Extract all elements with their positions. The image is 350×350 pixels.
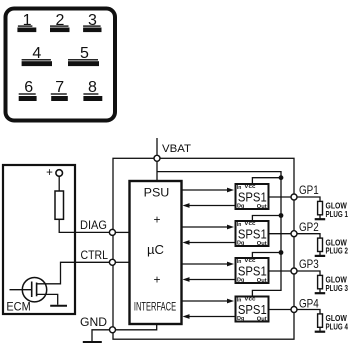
- pin 5: [68, 45, 99, 66]
- svg-text:GP4: GP4: [299, 297, 319, 311]
- pin 7: [51, 79, 68, 101]
- svg-text:GP2: GP2: [299, 220, 319, 234]
- SPS1 #4 box: [236, 297, 269, 322]
- svg-text:PSU: PSU: [144, 185, 170, 199]
- In wire 3: [182, 263, 229, 265]
- Vcc feed SPS1: [252, 178, 281, 183]
- module boundary box: [113, 158, 294, 339]
- SPS1 #2 box: [236, 221, 269, 246]
- Vcc feed SPS3: [252, 253, 281, 258]
- transistor Q1 circle: [22, 278, 46, 302]
- pin 8: [83, 79, 102, 101]
- glow plug 2 resistor: [318, 238, 323, 251]
- wire plug4 to ground: [319, 327, 321, 331]
- In wire 1: [182, 189, 229, 191]
- junction dot 1: [279, 175, 284, 180]
- junction dot 3: [279, 250, 284, 255]
- SPS1 #3 box: [236, 258, 269, 283]
- GLOW PLUG 2 label: [326, 237, 349, 255]
- wire CTRL to U1: [116, 261, 130, 263]
- svg-text:PLUG 4: PLUG 4: [326, 321, 349, 331]
- svg-text:PLUG 2: PLUG 2: [326, 246, 349, 256]
- svg-text:+: +: [46, 167, 53, 179]
- wire supply to resistor: [58, 176, 60, 191]
- svg-text:Dg: Dg: [237, 278, 245, 284]
- wire GP2 to plug: [297, 234, 320, 238]
- svg-text:SPS1: SPS1: [238, 302, 267, 317]
- terminal GP2: [291, 231, 297, 237]
- terminal GP4: [291, 307, 297, 313]
- connector J1 (relay socket outline): [6, 9, 116, 121]
- ground main: [83, 341, 102, 343]
- wire GND external: [92, 330, 109, 342]
- glow plug 3 resistor: [318, 275, 323, 288]
- ground plug4: [315, 331, 326, 333]
- Out wire 4: [270, 309, 292, 311]
- svg-text:VBAT: VBAT: [162, 143, 191, 155]
- wire GP1 to plug: [297, 197, 320, 201]
- wire plug2 to ground: [319, 252, 321, 256]
- Dg arrow 1: [183, 203, 190, 208]
- GLOW PLUG 1 label: [326, 201, 349, 219]
- source wire: [37, 294, 58, 304]
- svg-text:INTERFACE: INTERFACE: [134, 301, 177, 313]
- terminal DIAG: [109, 229, 115, 235]
- resistor R1 (pull-up): [55, 191, 64, 219]
- svg-text:Out: Out: [257, 204, 267, 210]
- drain wire to CTRL: [37, 262, 110, 284]
- ground plug1: [315, 218, 326, 220]
- gate wire: [10, 289, 32, 291]
- wire GP4 to plug: [297, 310, 320, 314]
- Out wire 1: [270, 196, 292, 198]
- svg-text:µC: µC: [147, 242, 164, 257]
- svg-text:Out: Out: [257, 317, 267, 323]
- svg-text:Dg: Dg: [237, 241, 245, 247]
- Vcc feed SPS2: [252, 216, 281, 221]
- svg-text:Out: Out: [257, 278, 267, 284]
- svg-text:ECM: ECM: [6, 302, 30, 314]
- SPS1 #1 labels: [237, 184, 267, 210]
- pin 4: [22, 45, 52, 66]
- In arrow 3: [227, 262, 234, 267]
- SPS1 #3 labels: [237, 258, 267, 284]
- pin 2: [50, 12, 70, 32]
- svg-text:CTRL: CTRL: [81, 248, 109, 262]
- In arrow 4: [227, 299, 234, 304]
- Dg arrow 3: [183, 277, 190, 282]
- junction dot 2: [279, 213, 284, 218]
- svg-text:GP1: GP1: [299, 183, 319, 197]
- pin 1: [17, 12, 36, 32]
- wire GND internal: [116, 324, 157, 330]
- wire GP3 to plug: [297, 271, 320, 275]
- wire DIAG to U1: [116, 231, 130, 233]
- Out wire 3: [270, 270, 292, 272]
- svg-text:PLUG 1: PLUG 1: [326, 209, 349, 219]
- Dg wire 2: [188, 242, 235, 244]
- Dg wire 4: [188, 316, 235, 318]
- glow plug 4 resistor: [318, 314, 323, 327]
- wire plug1 to ground: [319, 215, 321, 219]
- pin 6: [19, 79, 37, 101]
- svg-text:DIAG: DIAG: [80, 218, 107, 232]
- ground plug2: [315, 255, 326, 257]
- svg-text:Out: Out: [257, 241, 267, 247]
- wire VBAT to PSU: [156, 161, 158, 180]
- svg-text:PLUG 3: PLUG 3: [326, 283, 349, 293]
- In arrow 1: [227, 188, 234, 193]
- ground ECM: [50, 305, 67, 307]
- ECM box: [3, 165, 75, 314]
- Out wire 2: [270, 233, 292, 235]
- wire resistor to DIAG: [59, 219, 109, 232]
- GLOW PLUG 3 label: [326, 275, 349, 293]
- svg-text:GND: GND: [80, 315, 107, 329]
- Dg arrow 4: [183, 314, 190, 319]
- In wire 4: [182, 300, 229, 302]
- Dg arrow 2: [183, 240, 190, 245]
- VBAT stub wire: [156, 138, 158, 155]
- microcontroller unit U1 box: [130, 181, 182, 324]
- svg-text:SPS1: SPS1: [238, 264, 267, 279]
- terminal GND: [110, 327, 116, 333]
- pin 3: [83, 12, 101, 32]
- Dg wire 3: [188, 279, 235, 281]
- svg-text:GP3: GP3: [299, 257, 319, 271]
- channel plate: [36, 283, 38, 297]
- wire plug3 to ground: [319, 289, 321, 293]
- In arrow 2: [227, 225, 234, 230]
- gate plate: [31, 282, 33, 298]
- terminal VBAT: [154, 155, 160, 161]
- svg-text:+: +: [153, 272, 160, 286]
- svg-text:SPS1: SPS1: [238, 227, 267, 242]
- svg-text:Dg: Dg: [237, 204, 245, 210]
- In wire 2: [182, 226, 229, 228]
- Dg wire 1: [188, 205, 235, 207]
- supply terminal circle: [56, 170, 63, 177]
- svg-text:+: +: [153, 213, 160, 227]
- terminal GP3: [291, 268, 297, 274]
- terminal GP1: [291, 194, 297, 200]
- svg-text:Dg: Dg: [237, 316, 245, 322]
- SPS1 #2 labels: [237, 221, 267, 247]
- GLOW PLUG 4 label: [326, 313, 349, 331]
- glow plug 1 resistor: [318, 201, 323, 214]
- wire VBAT branch to Vcc rail: [157, 172, 281, 296]
- ground plug3: [315, 292, 326, 294]
- SPS1 #4 labels: [237, 297, 267, 323]
- SPS1 #1 box: [236, 184, 269, 209]
- terminal CTRL: [109, 259, 115, 265]
- svg-text:SPS1: SPS1: [238, 190, 267, 205]
